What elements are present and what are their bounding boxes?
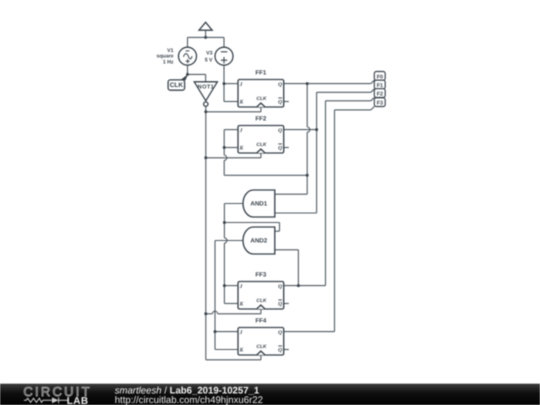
svg-text:CLK: CLK [256, 96, 267, 102]
svg-text:J: J [239, 330, 243, 336]
svg-text:K: K [239, 302, 244, 308]
svg-text:Q: Q [278, 302, 282, 308]
svg-text:Q: Q [278, 146, 282, 152]
svg-text:Q: Q [278, 284, 282, 290]
svg-text:LAB: LAB [67, 396, 89, 405]
svg-text:5 V: 5 V [205, 57, 213, 63]
svg-text:Q: Q [278, 100, 282, 106]
svg-text:Q: Q [278, 348, 282, 354]
svg-text:K: K [239, 146, 244, 152]
svg-text:F1: F1 [377, 83, 383, 89]
svg-text:FF2: FF2 [255, 116, 267, 123]
svg-text:K: K [239, 348, 244, 354]
svg-text:K: K [239, 100, 244, 106]
svg-text:Q: Q [278, 330, 282, 336]
svg-text:V3: V3 [206, 50, 212, 56]
svg-text:FF1: FF1 [255, 70, 267, 77]
svg-text:1 Hz: 1 Hz [163, 60, 174, 66]
svg-text:Q: Q [278, 128, 282, 134]
svg-text:CLK: CLK [256, 344, 267, 350]
svg-text:F2: F2 [377, 92, 383, 98]
svg-text:F0: F0 [377, 74, 383, 80]
svg-text:AND1: AND1 [250, 201, 267, 208]
svg-text:FF3: FF3 [255, 272, 267, 279]
svg-text:CLK: CLK [256, 142, 267, 148]
svg-text:F3: F3 [377, 101, 383, 107]
svg-text:http://circuitlab.com/ch49hjnx: http://circuitlab.com/ch49hjnxu6r22 [115, 395, 263, 405]
svg-text:J: J [239, 82, 243, 88]
svg-text:AND2: AND2 [250, 238, 267, 245]
svg-text:NOT1: NOT1 [198, 85, 215, 91]
svg-text:CLK: CLK [170, 82, 184, 89]
svg-text:Q: Q [278, 82, 282, 88]
svg-text:CLK: CLK [256, 298, 267, 304]
svg-text:J: J [239, 284, 243, 290]
svg-text:FF4: FF4 [255, 318, 267, 325]
svg-text:J: J [239, 128, 243, 134]
